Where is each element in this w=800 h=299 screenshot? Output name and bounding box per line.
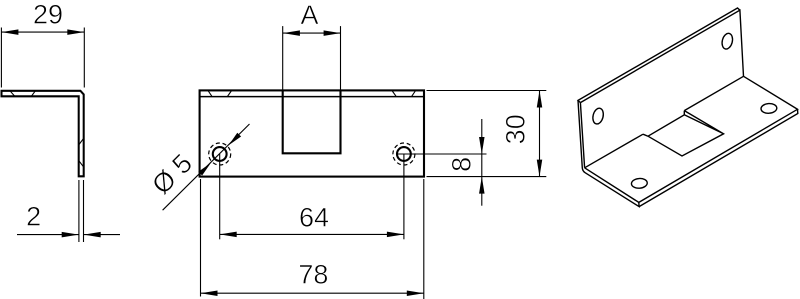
side view flange (top horizontal plate edge-on): [2, 91, 84, 177]
dimension 2: [17, 180, 120, 242]
iso plate hole left: [591, 107, 605, 125]
flange hole marks left (front view band): [208, 91, 231, 96]
iso flange hole left: [631, 178, 647, 189]
flange hole marks right (front view band): [392, 91, 415, 96]
bend line (front view band): [200, 96, 424, 98]
svg-text:64: 64: [299, 203, 329, 233]
svg-text:29: 29: [33, 0, 63, 29]
svg-text:78: 78: [298, 260, 328, 290]
plate outline (front view): [200, 90, 424, 176]
notch edges through band (thin): [283, 26, 341, 97]
iso flange hole right: [761, 103, 777, 114]
dimension 29: [1, 28, 84, 88]
dimension 64: [220, 232, 404, 238]
svg-text:A: A: [300, 0, 318, 30]
iso flange thickness: [639, 109, 798, 206]
flange hole marks (side view): [10, 91, 35, 96]
iso bend line left: [585, 134, 643, 168]
svg-text:8: 8: [447, 157, 477, 172]
iso plate thickness edges: [578, 8, 740, 207]
iso flange outline: [585, 76, 798, 202]
svg-text:2: 2: [26, 201, 41, 231]
iso plate face: [580, 10, 743, 168]
hole right (front view): [393, 143, 487, 239]
iso bend line right: [684, 76, 743, 110]
svg-text:30: 30: [500, 114, 530, 144]
hole left (front view): [209, 143, 231, 239]
dimension 8: [427, 119, 547, 206]
notch A (front view): [283, 91, 341, 153]
iso plate hole right: [721, 32, 735, 50]
dimension 30: [427, 91, 547, 177]
iso notch: [643, 111, 724, 156]
leg hole marks (side view): [79, 139, 83, 167]
dimension A: [283, 30, 341, 35]
dimension 78: [201, 179, 424, 299]
leader line diameter 5: [163, 124, 250, 210]
